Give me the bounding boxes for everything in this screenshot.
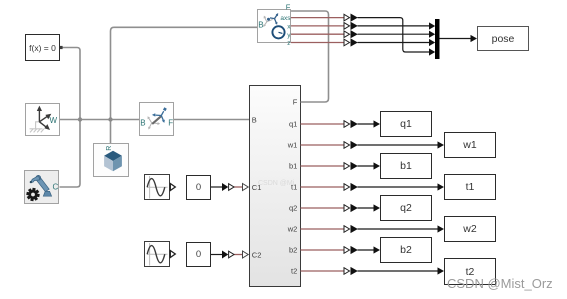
svg-text:F: F — [168, 118, 173, 127]
svg-text:B: B — [252, 116, 257, 125]
svg-text:axs: axs — [280, 15, 291, 22]
svg-text:q2: q2 — [289, 204, 297, 213]
svg-text:R: R — [106, 146, 113, 151]
svg-text:x: x — [287, 23, 291, 30]
svg-text:w1: w1 — [287, 141, 298, 150]
svg-text:b1: b1 — [289, 162, 297, 171]
svg-text:w2: w2 — [287, 225, 298, 234]
svg-text:F: F — [293, 98, 298, 107]
svg-text:y: y — [287, 32, 291, 39]
svg-text:b2: b2 — [289, 246, 297, 255]
svg-text:C: C — [53, 182, 59, 191]
svg-text:q1: q1 — [289, 120, 297, 129]
svg-text:C2: C2 — [252, 250, 262, 259]
svg-text:z: z — [287, 40, 290, 47]
svg-text:F: F — [286, 3, 291, 12]
svg-text:W: W — [50, 116, 58, 125]
svg-text:t2: t2 — [291, 267, 297, 276]
svg-text:B: B — [258, 21, 263, 30]
svg-text:B: B — [140, 118, 145, 127]
